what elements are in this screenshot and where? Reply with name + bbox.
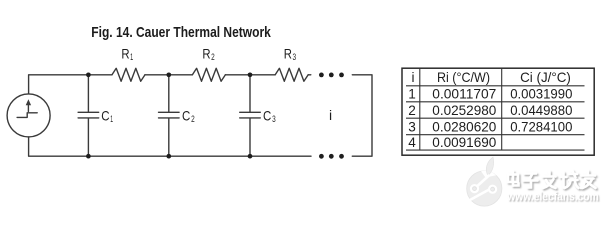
char you — [581, 171, 596, 188]
table for Ri Ci values — [402, 68, 594, 155]
table row line 3 — [406, 134, 585, 136]
capacitor C3 — [240, 75, 261, 156]
svg-text:1: 1 — [110, 114, 113, 124]
table column rule 1 — [419, 69, 421, 150]
svg-text:C: C — [182, 108, 190, 124]
table column rule 2 — [501, 69, 503, 150]
current source arrow — [27, 103, 29, 112]
svg-text:0.0280620: 0.0280620 — [432, 119, 496, 134]
current source arrowhead — [26, 99, 31, 105]
table outer border — [402, 68, 594, 155]
svg-text:C: C — [263, 108, 271, 124]
svg-text:R: R — [202, 46, 210, 62]
svg-text:0.7284100: 0.7284100 — [510, 119, 573, 134]
current source step waveform — [17, 113, 37, 118]
node dot bottom C2 — [166, 154, 171, 159]
node dot top C1 — [86, 72, 91, 77]
svg-text:Ri (°C/W): Ri (°C/W) — [437, 70, 490, 85]
resistor R2 — [192, 68, 225, 81]
wire: stub after R3 — [308, 74, 311, 76]
svg-text:Ci (J/°C): Ci (J/°C) — [520, 70, 571, 85]
svg-text:www.elecfans.com: www.elecfans.com — [506, 190, 598, 204]
char shao — [561, 171, 579, 188]
svg-text:4: 4 — [408, 135, 416, 150]
svg-text:2: 2 — [191, 114, 195, 124]
char zi — [524, 174, 538, 188]
char dian — [508, 175, 518, 183]
table row line 4 — [406, 149, 585, 151]
wire: node 1 to node 2 — [145, 74, 192, 76]
table row line 1 — [406, 101, 585, 103]
node dot top C2 — [166, 72, 171, 77]
table row line 2 — [406, 117, 585, 119]
wire: top right stub to bracket — [352, 75, 372, 156]
svg-text:2: 2 — [211, 52, 215, 62]
node dot bottom C1 — [86, 154, 91, 159]
svg-text:3: 3 — [293, 52, 297, 62]
svg-text:3: 3 — [272, 114, 276, 124]
svg-text:i: i — [411, 70, 414, 85]
node dot top C3 — [248, 72, 253, 77]
svg-text:R: R — [284, 46, 292, 62]
wire: node 2 to node 3 — [225, 74, 275, 76]
svg-text:0.0031990: 0.0031990 — [510, 87, 573, 102]
svg-text:2: 2 — [408, 103, 416, 118]
svg-text:R: R — [121, 46, 129, 62]
capacitor C2 — [159, 75, 180, 156]
svg-text:1: 1 — [130, 52, 133, 62]
ellipsis dots top — [319, 73, 324, 78]
resistor R1 — [112, 68, 145, 81]
svg-text:3: 3 — [408, 119, 416, 134]
ellipsis dots bottom — [319, 154, 324, 159]
svg-text:0.0091690: 0.0091690 — [432, 135, 496, 150]
watermark chinese characters (drawn strokes, embossed) — [508, 171, 596, 188]
capacitor C1 — [78, 75, 99, 156]
svg-text:0.0011707: 0.0011707 — [432, 87, 496, 102]
resistor R3 — [275, 68, 308, 81]
wire: source top to node 1 — [29, 75, 112, 94]
table header underline — [406, 85, 585, 87]
wire: bottom rail — [29, 137, 311, 156]
current source U1 circle — [7, 94, 50, 137]
svg-text:1: 1 — [408, 87, 416, 102]
svg-text:C: C — [101, 108, 109, 124]
watermark logo (elecfans) — [467, 157, 502, 206]
svg-text:0.0252980: 0.0252980 — [432, 103, 496, 118]
svg-text:i: i — [329, 107, 332, 123]
node dot bottom C3 — [248, 154, 253, 159]
svg-text:Fig. 14. Cauer Thermal Network: Fig. 14. Cauer Thermal Network — [91, 24, 271, 41]
svg-text:0.0449880: 0.0449880 — [510, 103, 573, 118]
char fa — [543, 172, 556, 189]
